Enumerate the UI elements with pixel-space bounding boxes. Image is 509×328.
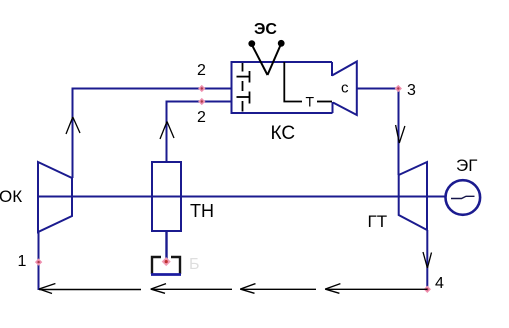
- node 2 upper: [198, 85, 205, 92]
- igniter ES electrodes: [252, 44, 281, 75]
- node 4: [424, 286, 431, 293]
- svg-text:ОК: ОК: [0, 187, 22, 206]
- svg-text:2: 2: [197, 109, 206, 126]
- wire TN to fuel tank: [165, 231, 167, 261]
- arrowhead mid 1: [151, 284, 166, 294]
- svg-text:4: 4: [435, 275, 444, 292]
- svg-text:ЭГ: ЭГ: [456, 156, 477, 175]
- wire turbine outlet down: [426, 230, 428, 289]
- wire TN to KC riser: [167, 102, 232, 163]
- svg-text:КС: КС: [271, 123, 296, 144]
- turbine GT: [399, 162, 427, 230]
- arrow up on riser 2: [160, 122, 174, 140]
- svg-text:1: 1: [18, 253, 27, 270]
- node 2 lower: [198, 98, 205, 105]
- fuel tank B: [151, 257, 181, 275]
- svg-text:ТН: ТН: [190, 201, 214, 221]
- arrow down on riser 3: [396, 125, 405, 143]
- arrowhead left end: [39, 284, 55, 294]
- wire compressor to KC riser: [73, 89, 232, 179]
- svg-text:2: 2: [197, 62, 206, 79]
- fuel line to T: [284, 62, 332, 102]
- KC swirler structure: [237, 63, 250, 112]
- svg-text:Б: Б: [189, 256, 200, 273]
- node tank: [162, 257, 171, 266]
- svg-text:с: с: [341, 80, 349, 97]
- svg-text:3: 3: [407, 82, 416, 99]
- svg-text:ГТ: ГТ: [368, 212, 388, 231]
- node 1: [35, 258, 42, 265]
- arrow up on riser 1: [66, 117, 80, 134]
- svg-text:Т: Т: [306, 94, 315, 110]
- bottom return wire: [39, 288, 427, 290]
- shaft wire: [38, 196, 446, 198]
- compressor OK: [38, 162, 72, 232]
- igniter dot right: [278, 40, 285, 47]
- arrow down on outlet: [423, 252, 432, 268]
- generator EG: [446, 180, 481, 215]
- wire nozzle to node 3 and down to turbine: [357, 89, 399, 176]
- generator tilde: [451, 196, 475, 198]
- svg-text:ЭС: ЭС: [254, 21, 277, 38]
- fuel pump TN: [152, 162, 181, 231]
- node 3: [395, 85, 402, 92]
- combustion chamber KC box: [232, 62, 333, 113]
- wire compressor inlet down: [38, 232, 40, 290]
- arrowhead mid 2: [240, 284, 255, 294]
- igniter dot left: [248, 40, 255, 47]
- nozzle c: [332, 62, 357, 116]
- arrowhead mid 3: [325, 284, 340, 294]
